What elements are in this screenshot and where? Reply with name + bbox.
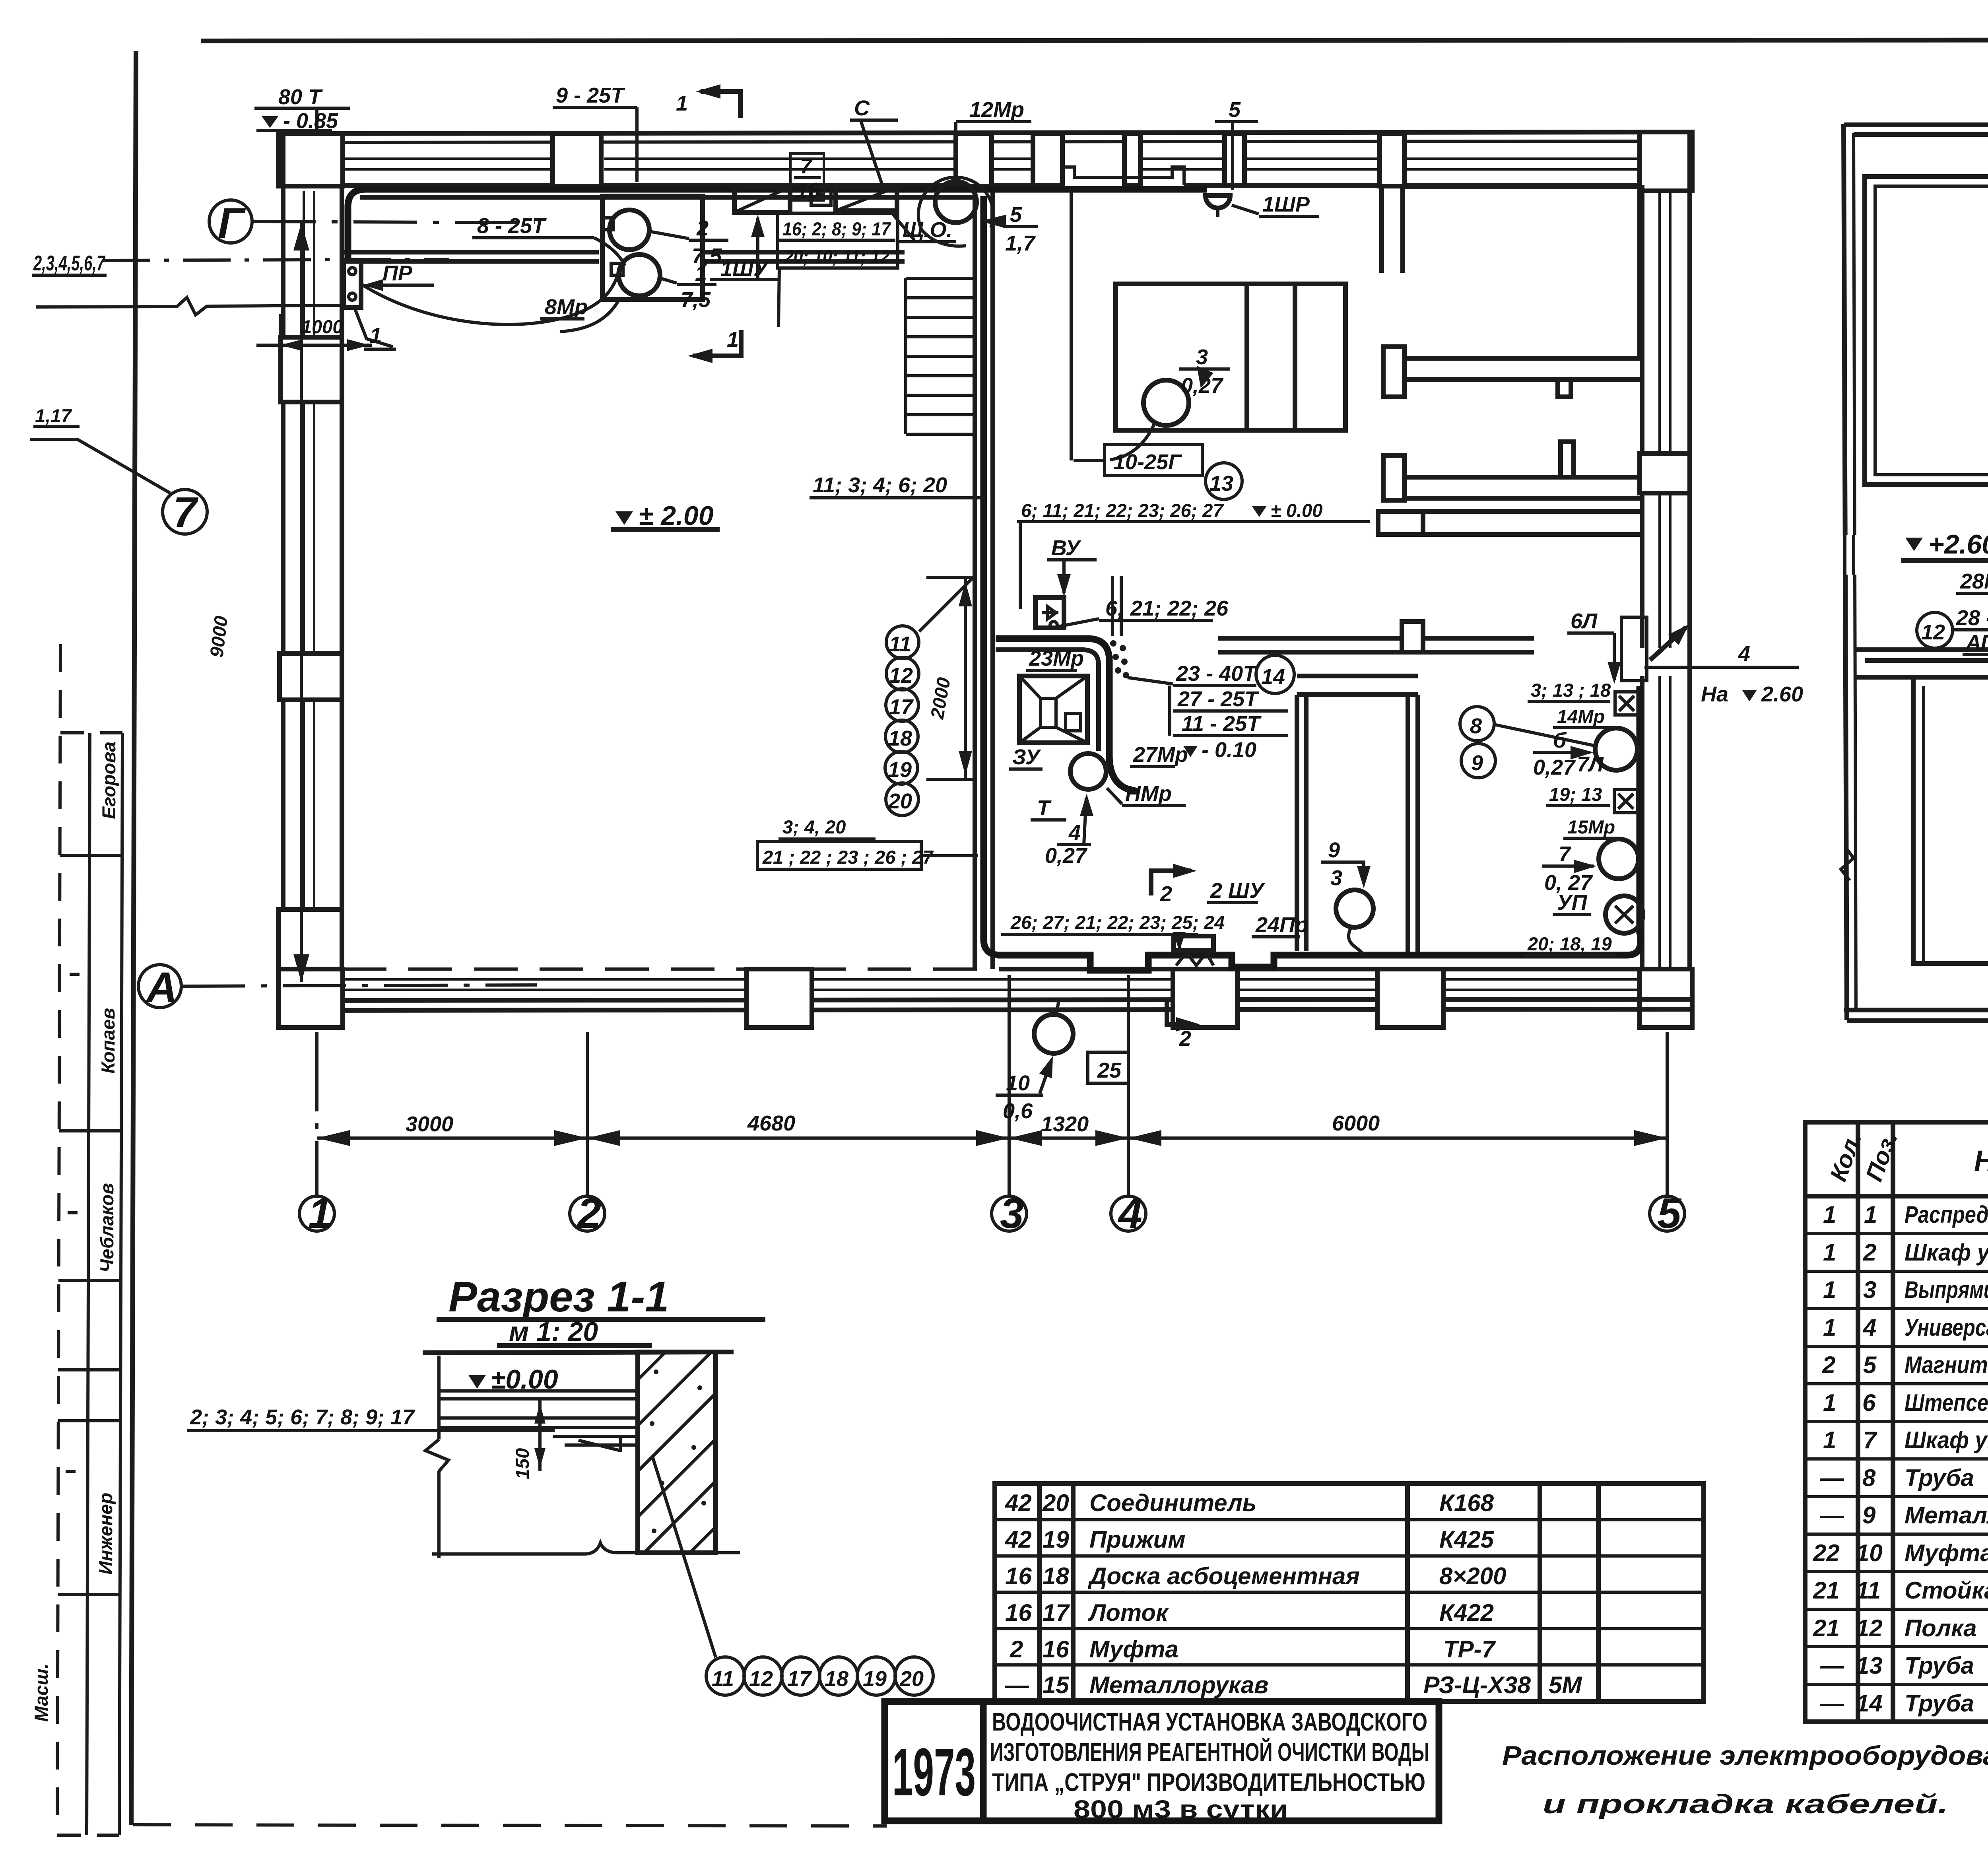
pencil arrow at wall [1650,627,1686,660]
svg-text:6: 6 [1862,1389,1876,1416]
svg-text:5: 5 [1657,1189,1682,1237]
year box 1973 [885,1702,983,1821]
corridor wall line 1 [342,250,905,254]
bottom wall outer line 2 [278,1009,1692,1010]
chlorine room upper wall [1218,638,1534,652]
svg-text:4: 4 [1068,821,1081,845]
stamp column outer line [119,733,122,1835]
svg-text:8: 8 [1862,1465,1876,1491]
svg-text:УП: УП [1557,891,1588,915]
svg-text:3; 13 ; 18: 3; 13 ; 18 [1531,680,1611,701]
svg-text:Т: Т [1037,796,1052,820]
SECTION-1-1 [187,1272,933,1695]
vent band 3 left pier [1378,511,1423,534]
cable curve 8Mp [560,297,620,332]
STAMP-COLUMN [31,644,122,1835]
svg-text:ИЗГОТОВЛЕНИЯ РЕАГЕНТНОЙ ОЧИСТК: ИЗГОТОВЛЕНИЯ РЕАГЕНТНОЙ ОЧИСТКИ ВОДЫ [990,1737,1429,1766]
top wall inner line [343,183,1640,188]
cable tray top run second line [360,195,974,200]
right wall outer line [1687,132,1692,1010]
svg-text:14: 14 [1261,665,1285,689]
right wall window line 2 [1669,191,1672,969]
svg-text:Масш.: Масш. [31,1663,52,1722]
pumps foundation [602,196,703,299]
svg-text:Муфта: Муфта [1905,1540,1988,1566]
device Sh [1066,713,1081,731]
interior wall line 2 [990,185,995,969]
svg-text:5: 5 [1229,98,1241,122]
svg-text:1: 1 [1823,1427,1836,1453]
building2 lower pool [1913,677,1988,963]
svg-text:20: 20 [899,1667,924,1691]
svg-text:Прижим: Прижим [1089,1526,1186,1553]
section 1-1 leader to circles [652,1455,716,1657]
svg-text:16: 16 [796,179,820,202]
vent band 2 mid pier [1561,442,1574,477]
right room pump D1 [1595,728,1637,770]
left table rows [995,1520,1704,1665]
right room pump D2 [1599,839,1639,879]
svg-text:На: На [1701,682,1728,706]
stamp divider 8 [57,1834,119,1837]
left wall pier L3 [278,909,342,972]
bottom wall pier B1 [747,969,812,1028]
svg-text:80 Т: 80 Т [278,85,323,109]
svg-text:Егорова: Егорова [98,742,119,819]
boxed label 16;2;8;9;17 [778,213,898,268]
frame bottom dashed left part [133,1825,887,1826]
svg-text:16; 2; 8; 9; 17: 16; 2; 8; 9; 17 [782,218,891,239]
axis 1 drop line [315,1032,318,1196]
svg-text:8Мр: 8Мр [545,295,588,319]
building2 left wall inner [1854,133,1856,1010]
rectifier VU [1035,598,1064,628]
svg-text:20: 20 [1042,1490,1069,1516]
svg-text:11: 11 [889,632,911,656]
svg-text:11: 11 [712,1667,734,1691]
dim 1000 [256,344,372,347]
svg-text:2.60: 2.60 [1761,682,1803,706]
level +2.60 [1905,538,1923,551]
svg-text:Металлорукав: Металлорукав [1089,1672,1269,1698]
svg-text:Расположение электрообо: Расположение электрооборудования [1502,1740,1988,1771]
stamp divider 2 [60,854,122,857]
lower right room left wall [1408,695,1418,954]
TITLE-BLOCK [885,1702,1988,1824]
svg-text:8 - 25Т: 8 - 25Т [477,214,547,238]
bottom wall inner line solid part [999,967,1640,971]
svg-text:12: 12 [1856,1615,1883,1641]
top wall pier A6 [1225,134,1244,185]
svg-text:10: 10 [1856,1540,1883,1566]
svg-text:—: — [1820,1465,1844,1491]
svg-text:7Л: 7Л [1577,752,1604,776]
svg-text:Разрез 1-1: Разрез 1-1 [448,1272,669,1321]
left wall window line 1 [303,191,305,909]
svg-text:2: 2 [1822,1352,1835,1378]
svg-text:м 1: 20: м 1: 20 [509,1317,598,1347]
cable to pump 13 [1074,422,1155,460]
svg-text:б: б [1553,728,1567,752]
svg-text:4680: 4680 [747,1111,795,1135]
svg-text:РЗ-Ц-Х38: РЗ-Ц-Х38 [1423,1672,1531,1698]
axis circle 5 [1650,1196,1685,1231]
svg-text:ВОДООЧИСТНАЯ УСТАНОВКА ЗАВОДСК: ВОДООЧИСТНАЯ УСТАНОВКА ЗАВОДСКОГО [992,1707,1427,1736]
svg-text:18: 18 [825,1667,848,1691]
svg-text:4: 4 [1738,642,1750,666]
svg-text:1,17: 1,17 [35,405,72,426]
svg-text:К425: К425 [1439,1526,1495,1553]
top wall pier A1 [278,134,343,186]
right table header line [1805,1194,1988,1198]
room 6L wall slot [1621,617,1647,681]
svg-text:13: 13 [1856,1652,1883,1679]
svg-text:6000: 6000 [1332,1111,1380,1135]
svg-text:2; 3; 4; 5; 6; 7; 8; 9; 17: 2; 3; 4; 5; 6; 7; 8; 9; 17 [190,1405,415,1429]
TABLES [995,1122,1988,1722]
right table columns [1858,1122,1988,1722]
upper middle room divider 2 [1293,284,1297,430]
vent wall band 3 [1423,511,1640,534]
svg-text:27 - 25Т: 27 - 25Т [1177,687,1259,711]
top wall door niche [1062,167,1184,185]
svg-text:ТИПА „СТРУЯ" ПРОИЗВОДИТЕЛЬНОСТ: ТИПА „СТРУЯ" ПРОИЗВОДИТЕЛЬНОСТЬЮ [992,1768,1425,1797]
right table border [1805,1122,1988,1722]
svg-text:5: 5 [1863,1352,1877,1378]
svg-text:26; 27; 21; 22; 23; 25; 24: 26; 27; 21; 22; 23; 25; 24 [1010,912,1225,933]
corridor wall line 2 [342,259,905,264]
svg-text:± 2.00: ± 2.00 [639,501,714,531]
boxed label 25 [1088,1052,1128,1083]
svg-text:10: 10 [1006,1071,1030,1095]
level -0.85 [262,116,278,128]
svg-text:18: 18 [1043,1563,1069,1589]
building2 top wall [1844,125,1988,134]
leader 1 from PR [355,308,393,347]
svg-text:2: 2 [1179,1027,1191,1051]
svg-text:9: 9 [1328,838,1340,862]
svg-text:24Пр: 24Пр [1255,913,1308,937]
left table columns [1039,1484,1598,1702]
section 1-1 floor level mark [468,1375,486,1389]
svg-text:19: 19 [1043,1526,1069,1553]
svg-text:11 - 25Т: 11 - 25Т [1182,712,1262,736]
stamp divider 4 [58,1279,121,1282]
svg-text:1,7: 1,7 [1005,231,1036,255]
right room device box X1 [1615,692,1638,715]
svg-text:Чеблаков: Чеблаков [96,1183,117,1272]
svg-text:Штепсельная розетка ШР.: Штепсельная розетка ШР. [1905,1389,1988,1416]
RIGHT-BUILDING [1839,124,1988,1021]
section 1-1 left edge [425,1356,448,1558]
svg-text:27Мр: 27Мр [1133,743,1188,767]
svg-text:1: 1 [1823,1239,1836,1266]
pump 9/3 [1336,890,1373,927]
svg-text:Наименование: Наименование [1974,1144,1988,1177]
dim 2000 [964,577,967,779]
svg-text:К422: К422 [1439,1599,1494,1626]
dim arrows at axes [317,1130,350,1146]
bottom dimension line [317,1136,1667,1140]
svg-text:9: 9 [1862,1502,1876,1529]
section mark 2 top [1151,871,1191,895]
tray line building2 [1865,658,1988,663]
svg-text:7: 7 [173,488,199,536]
panel SchO [836,187,897,211]
axis circle 1 [299,1196,334,1231]
svg-text:16: 16 [1005,1563,1032,1589]
svg-text:Лоток: Лоток [1088,1599,1169,1626]
svg-text:Выпрямительное устройст. ВУ.: Выпрямительное устройст. ВУ. [1905,1276,1988,1303]
EQUIPMENT [344,84,1803,1123]
vertical dim 9000 line [300,223,303,982]
svg-text:2: 2 [696,216,709,240]
svg-text:К168: К168 [1439,1490,1494,1516]
stamp divider 6 [58,1419,120,1422]
building2 bottom wall [1844,1010,1988,1021]
svg-text:4: 4 [1118,1189,1142,1237]
svg-text:5М: 5М [1549,1672,1582,1698]
svg-text:Распределительный пункт ПР: Распределительный пункт ПР [1905,1201,1988,1228]
stamp column dashed border [57,644,60,1829]
axis circle 2 [570,1196,605,1231]
bottom wall corner pier B4 [278,969,343,1028]
staircase left stringer [904,278,907,434]
svg-text:1320: 1320 [1041,1112,1089,1136]
svg-text:3; 4, 20: 3; 4, 20 [782,816,846,837]
svg-text:3: 3 [1330,866,1342,890]
boxed label 10-25G [1105,445,1202,476]
cable drop to enclosure [1112,576,1121,636]
svg-text:ЗУ: ЗУ [1012,745,1041,769]
svg-text:Стойка: Стойка [1905,1577,1988,1604]
top wall pier A3 [956,134,992,186]
left wall outer line [281,134,285,1010]
leader 8 to pump [1494,725,1596,746]
top wall window line 1 [343,157,1640,160]
pump NMp [1070,754,1106,789]
svg-text:12Мр: 12Мр [969,98,1024,122]
leader to circle 7 [30,439,170,493]
vent band 1 small pier [1558,379,1571,397]
axis 5 drop line [1666,1032,1669,1196]
svg-text:21: 21 [1813,1615,1840,1641]
frame top edge [201,40,1988,41]
svg-text:15: 15 [1043,1672,1070,1698]
svg-text:14Мр: 14Мр [1557,706,1605,727]
svg-text:28Мр: 28Мр [1960,569,1988,593]
svg-text:19; 13: 19; 13 [1549,784,1602,805]
svg-text:Доска асбоцементная: Доска асбоцементная [1087,1563,1360,1589]
room pump 13 [1143,380,1189,425]
svg-text:13: 13 [1209,472,1233,495]
svg-text:28 - 25Т: 28 - 25Т [1956,606,1988,630]
vent wall band 2 [1383,477,1640,498]
level +-2.00 [615,511,633,525]
svg-text:19: 19 [888,758,912,782]
section 1-1 wall hatch [638,1352,716,1553]
svg-text:Универсальный переключат. У: Универсальный переключат. УП [1905,1314,1988,1341]
svg-text:6; 11; 21; 22; 23; 26; 27: 6; 11; 21; 22; 23; 26; 27 [1021,500,1224,521]
top wall corner pier A8 [1640,132,1692,191]
interior wall line 1 [973,185,977,969]
svg-text:5: 5 [1010,203,1022,227]
svg-text:Металлорукав: Металлорукав [1905,1502,1988,1529]
svg-text:11; 3; 4; 6; 20: 11; 3; 4; 6; 20 [813,473,947,497]
svg-text:1: 1 [676,91,688,115]
svg-text:3: 3 [1863,1276,1876,1303]
svg-text:ТР-7: ТР-7 [1443,1636,1496,1663]
top wall outer line [278,132,1692,134]
staircase treads [906,278,975,434]
svg-text:—: — [1820,1652,1844,1679]
axis circle 4 [1111,1196,1146,1231]
bottom wall inner line dashed part [343,967,999,971]
vertical cable x2694 [1070,189,1073,460]
axis circle 3 [992,1196,1027,1231]
svg-text:—: — [1820,1690,1844,1717]
fan scroll [935,181,977,223]
svg-text:Г: Г [218,199,246,247]
svg-text:7: 7 [1559,842,1572,866]
section 1-1 floor lines [439,1391,638,1399]
svg-text:1: 1 [727,328,739,352]
axis 2 drop line [586,1032,589,1196]
building2 upper pool outer [1865,177,1988,484]
section 1-1 floor lines 2 [439,1418,638,1428]
svg-text:1: 1 [1823,1276,1836,1303]
svg-text:—: — [1005,1672,1029,1698]
frame left edge [131,51,136,1825]
svg-text:21: 21 [1813,1577,1840,1604]
svg-text:150: 150 [512,1448,533,1479]
svg-text:Шкаф управления 1ШУ: Шкаф управления 1ШУ [1905,1239,1988,1266]
building2 lower pool inner line [1922,686,1925,963]
cabinet 2ShU on wall [1174,936,1213,950]
svg-text:12: 12 [749,1667,773,1691]
pump motor 1 [619,254,660,296]
leader circles to wall [919,577,974,631]
svg-text:1: 1 [1823,1314,1836,1341]
section 1-1 tray bracket [553,1435,636,1452]
bottom wall window line 2 [342,989,1640,991]
ref circle 8 [1460,707,1494,741]
pump outside wall [1034,1014,1073,1053]
svg-text:20; 10; 11; 12: 20; 10; 11; 12 [784,246,889,267]
svg-text:1ШУ: 1ШУ [720,257,769,281]
section mark 2 bottom [1167,1000,1194,1024]
right table rows [1805,1233,1988,1684]
left table border [995,1484,1704,1702]
svg-text:1: 1 [695,262,707,286]
bottom wall pier B3 [1377,969,1443,1028]
svg-text:6; 21; 22; 26: 6; 21; 22; 26 [1105,596,1229,620]
top wall pier A5 [1124,134,1140,185]
svg-text:17: 17 [787,1667,812,1691]
svg-text:1: 1 [1823,1201,1836,1228]
svg-text:ВУ: ВУ [1051,536,1081,560]
right wall window line 1 [1658,191,1661,969]
pump motor 2 [610,210,649,250]
equipment enclosure [996,639,1140,791]
chlorine room left wall [1297,695,1306,951]
svg-text:—: — [1820,1502,1844,1529]
top wall window line 2 [343,168,1640,171]
svg-text:17: 17 [889,695,914,719]
stamp divider 1 [60,731,122,734]
boxed label 21;22;23;26;27 [757,841,921,869]
svg-text:Муфта: Муфта [1089,1636,1178,1663]
svg-text:25: 25 [1097,1059,1122,1082]
svg-text:23Мр: 23Мр [1029,647,1084,670]
svg-text:42: 42 [1005,1526,1032,1553]
bottom wall outer line 1 [278,999,1692,1000]
svg-text:7: 7 [800,154,813,178]
svg-text:8×200: 8×200 [1439,1563,1507,1589]
axis circle A [138,965,181,1008]
svg-text:1000: 1000 [301,316,343,337]
svg-text:2: 2 [1010,1636,1023,1663]
svg-text:3: 3 [1196,345,1208,369]
ref circles row 11-20 [706,1657,744,1695]
stamp divider 7 [58,1593,120,1596]
cabinet 1ShU [734,187,790,212]
svg-text:20; 18, 19: 20; 18, 19 [1527,933,1612,954]
svg-text:± 0.00: ± 0.00 [1271,500,1322,521]
svg-text:Шкаф управления 2ШУ: Шкаф управления 2ШУ [1905,1427,1988,1453]
stamp tick marks [70,973,80,976]
svg-text:Магнитный пускатель 1;2Л: Магнитный пускатель 1;2Л [1905,1352,1988,1378]
svg-text:16: 16 [1005,1599,1032,1626]
vent wall band 1 [1383,358,1640,379]
upper middle room rect [1116,284,1345,430]
svg-text:17: 17 [1043,1599,1070,1626]
cable tray top run [348,189,1207,263]
stamp column inner line [87,733,90,1835]
svg-text:0,27: 0,27 [1533,756,1576,779]
svg-text:2,3,4,5,6,7: 2,3,4,5,6,7 [33,251,106,275]
svg-text:- 0.10: - 0.10 [1202,738,1256,762]
right room switch UP [1606,896,1643,933]
chlorine room lower wall [1297,676,1418,695]
svg-text:7,5: 7,5 [681,288,711,312]
svg-text:1: 1 [370,324,382,348]
cable dash-dot line to PR [103,259,449,260]
svg-text:22: 22 [1813,1540,1840,1566]
svg-text:3: 3 [1000,1189,1024,1237]
svg-text:42: 42 [1005,1490,1032,1516]
connection dots [1110,640,1116,647]
svg-text:8: 8 [1470,714,1482,738]
svg-text:2: 2 [1160,882,1172,906]
device C [811,187,831,205]
svg-text:12: 12 [889,664,913,688]
svg-text:10-25Г: 10-25Г [1113,450,1182,474]
cable riser right room [1637,686,1643,934]
top wall pier A7 [1380,134,1404,186]
building2 wall break mark [1841,847,1854,880]
svg-text:11: 11 [1856,1577,1881,1604]
svg-text:1ШР: 1ШР [1262,192,1310,216]
svg-text:15Мр: 15Мр [1567,816,1615,837]
svg-text:2: 2 [1863,1239,1876,1266]
svg-text:18: 18 [888,726,912,750]
right wall corner pier R2 [1640,969,1692,1028]
ref circle 13 [1206,463,1242,499]
svg-text:2 ШУ: 2 ШУ [1210,879,1265,903]
building2 left door gap [1839,535,1860,575]
svg-text:3000: 3000 [406,1112,453,1136]
